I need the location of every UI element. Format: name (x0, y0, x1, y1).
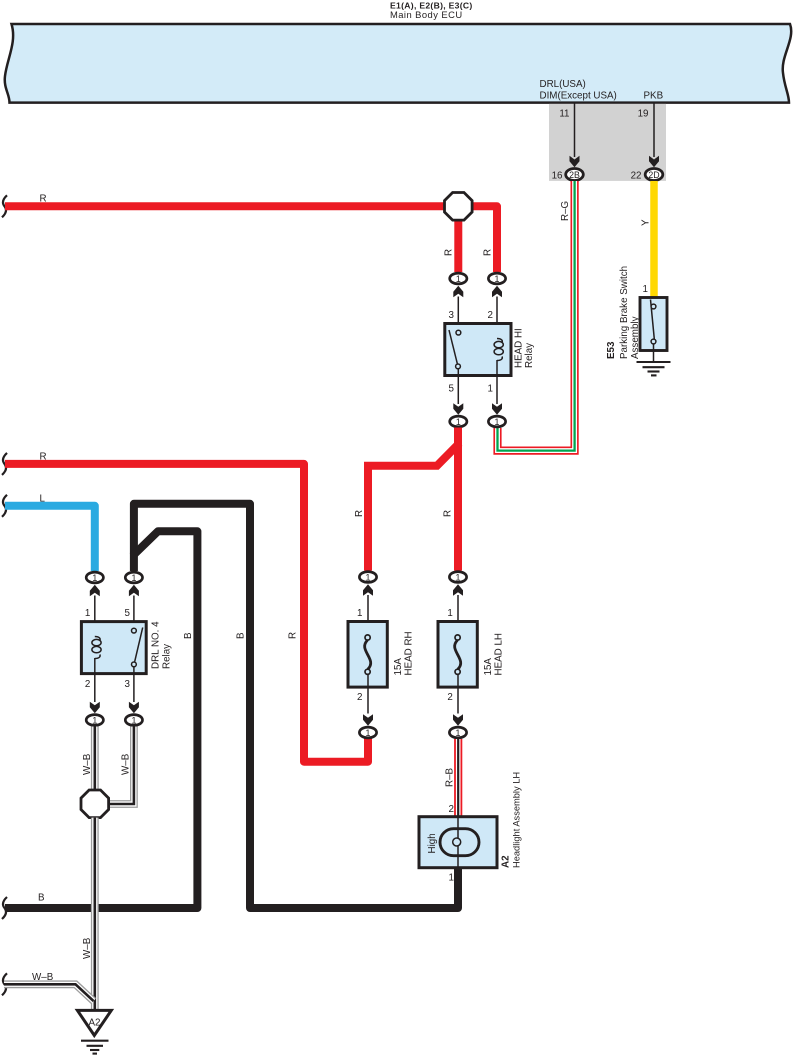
ground lead E53 (653, 344, 655, 362)
pin 1 lead DRL relay (94, 596, 96, 638)
svg-text:B: B (236, 632, 247, 639)
svg-text:DIM(Except USA): DIM(Except USA) (540, 91, 617, 102)
ECU U1 Main Body ECU band (5, 24, 791, 103)
svg-text:R: R (444, 249, 455, 256)
pin 2 lead HEAD HI relay (496, 297, 498, 339)
svg-text:2: 2 (488, 310, 493, 321)
pin 3 lead HEAD HI relay (457, 297, 459, 331)
relay label DRL NO. 4 Relay (151, 621, 173, 669)
relay U3 DRL NO. 4 Relay box (81, 622, 146, 674)
net label DRL(USA) DIM(Except USA) (540, 79, 617, 102)
svg-text:1: 1 (643, 284, 648, 295)
arrow into 2B (570, 156, 580, 168)
label A2 Headlight Assembly LH (501, 772, 522, 868)
headlight pin 2 lead (457, 817, 459, 838)
connector 1 below DRL pin 3 (125, 715, 142, 726)
svg-text:Assembly: Assembly (630, 316, 641, 359)
ground symbol A2 (81, 1041, 109, 1054)
ECU connector block (gray) (549, 104, 666, 181)
wire R-G from 2B to HEAD HI relay pin 1 (498, 181, 575, 451)
junction node (octagon) on W-B wire (81, 790, 109, 818)
connector 1 below relay pin 5 (450, 416, 467, 427)
svg-text:2B: 2B (569, 170, 580, 180)
fuse F2 15A HEAD LH box (438, 622, 477, 688)
header label E1(A), E2(B), E3(C) / Main Body ECU (390, 1, 473, 21)
svg-text:R: R (354, 510, 365, 517)
wire R diagonal branch and feed to fuse HEAD RH (368, 443, 460, 571)
wire R horizontal to HEAD HI relay (5, 206, 497, 272)
svg-text:2D: 2D (648, 170, 659, 180)
wire pin 11 to 2B (574, 103, 576, 157)
svg-text:HEAD HI: HEAD HI (514, 328, 525, 368)
relay coil (pins 2-1) (494, 339, 503, 376)
pin 5 lead HEAD HI relay (457, 369, 459, 404)
svg-text:1: 1 (449, 873, 454, 884)
wire R from fuse HEAD RH output to left edge (5, 464, 368, 762)
wire B ground branch (diagonal to left edge) (5, 531, 197, 908)
connector 1 below fuse LH (449, 727, 466, 738)
svg-text:Relay: Relay (524, 343, 535, 368)
connector 1 above DRL relay pin 5 (125, 572, 142, 583)
svg-text:R: R (40, 451, 47, 462)
pin 2 lead DRL relay (94, 674, 96, 702)
arrow into connector (pin 3) (453, 286, 463, 298)
svg-text:5: 5 (125, 608, 131, 619)
svg-text:5: 5 (449, 384, 455, 395)
wire break at left edge (B) (2, 897, 7, 919)
svg-text:DRL NO. 4: DRL NO. 4 (151, 621, 162, 669)
arrow out of fuse LH (453, 714, 463, 726)
svg-text:19: 19 (638, 109, 649, 120)
wire W-B from DRL pin 2 down (91, 727, 99, 796)
svg-text:Relay: Relay (162, 644, 173, 669)
headlight pin 1 lead (457, 846, 459, 868)
svg-text:3: 3 (125, 679, 131, 690)
label Parking Brake Switch Assembly (619, 266, 641, 359)
svg-text:Main Body ECU: Main Body ECU (390, 9, 463, 20)
pin 3 lead DRL relay (133, 667, 135, 702)
wire break at left edge (R second) (2, 453, 7, 475)
svg-text:2: 2 (449, 804, 454, 815)
svg-text:16: 16 (552, 171, 563, 182)
svg-text:3: 3 (449, 310, 455, 321)
svg-text:15A: 15A (483, 658, 494, 676)
DRL relay coil (pins 1-2) (92, 637, 101, 674)
svg-text:1: 1 (495, 417, 500, 427)
svg-text:Headlight Assembly LH: Headlight Assembly LH (512, 772, 522, 868)
arrow into connector (pin 5 out) (453, 403, 463, 415)
connector 1 above DRL relay pin 1 (86, 572, 103, 583)
svg-text:R: R (40, 194, 47, 205)
svg-text:B: B (38, 893, 45, 904)
svg-text:A2: A2 (89, 1018, 101, 1029)
svg-text:1: 1 (447, 608, 452, 619)
svg-text:HEAD LH: HEAD LH (494, 633, 505, 675)
svg-text:2: 2 (357, 692, 362, 703)
arrow into DRL pin5 connector (129, 585, 139, 597)
arrow into 2D (649, 156, 659, 168)
connector 1 above fuse HEAD RH (359, 572, 376, 583)
arrow out of DRL pin 3 (129, 702, 139, 714)
junction node (octagon) on R wire (445, 193, 473, 221)
DRL relay switch contacts (pins 5-3) (132, 628, 143, 667)
switch contacts E53 (651, 300, 656, 344)
svg-text:1: 1 (456, 417, 461, 427)
svg-text:W–B: W–B (32, 972, 54, 983)
svg-text:HEAD RH: HEAD RH (404, 631, 415, 675)
svg-text:B: B (183, 632, 194, 639)
relay label HEAD HI Relay (514, 328, 536, 368)
arrow into DRL pin1 connector (90, 585, 100, 597)
svg-text:1: 1 (131, 716, 136, 726)
svg-text:R: R (288, 632, 299, 639)
wire L to DRL relay pin 1 (5, 506, 95, 571)
svg-text:Y: Y (641, 219, 652, 226)
wire R-B fuse LH to headlight (454, 739, 462, 817)
svg-text:R: R (443, 510, 454, 517)
svg-text:1: 1 (85, 608, 90, 619)
connector 2B (566, 169, 584, 181)
svg-text:L: L (40, 493, 46, 504)
fuse F2 element (455, 635, 461, 675)
svg-text:W–B: W–B (121, 753, 132, 775)
wire W-B branch from left edge (4, 984, 94, 1001)
svg-text:1: 1 (357, 608, 362, 619)
arrow into fuse LH connector (453, 584, 463, 596)
wire break at left edge (L) (2, 495, 7, 517)
wire Y from 2D to E53 (650, 181, 658, 299)
svg-text:R–B: R–B (445, 767, 456, 787)
wire W-B from junction down to ground A2 (91, 818, 99, 1013)
fuse F1 element (365, 635, 371, 675)
connector 1 above relay pin 3 (450, 273, 467, 284)
connector 1 above relay pin 2 (488, 273, 505, 284)
arrow out of fuse RH (363, 714, 373, 726)
connector 1 below fuse RH (359, 727, 376, 738)
relay U2 HEAD HI Relay box (445, 324, 511, 376)
svg-text:R: R (483, 249, 494, 256)
svg-text:W–B: W–B (82, 937, 93, 959)
svg-text:15A: 15A (393, 658, 404, 676)
svg-text:1: 1 (131, 573, 136, 583)
arrow into fuse RH connector (363, 584, 373, 596)
pin 2 lead fuse LH (457, 674, 459, 714)
svg-text:A2: A2 (501, 855, 512, 868)
svg-text:1: 1 (456, 728, 461, 738)
wire break at left edge (R top) (2, 195, 7, 217)
svg-text:2: 2 (447, 692, 452, 703)
svg-text:1: 1 (495, 274, 500, 284)
connector 1 below DRL pin 2 (86, 715, 103, 726)
svg-text:22: 22 (631, 171, 642, 182)
svg-text:11: 11 (559, 109, 569, 120)
fuse F2 label 15A HEAD LH (483, 633, 505, 675)
pin 5 lead DRL relay (133, 596, 135, 629)
svg-text:R–G: R–G (560, 201, 571, 221)
arrow into connector (pin 2) (492, 286, 502, 298)
connector 1 below relay pin 1 (488, 416, 505, 427)
headlight A2 Headlight Assembly LH box (419, 817, 497, 868)
fuse F1 15A HEAD RH box (348, 622, 387, 688)
svg-text:2: 2 (85, 679, 90, 690)
svg-text:W–B: W–B (82, 753, 93, 775)
svg-text:1: 1 (92, 573, 97, 583)
wire R relay pin5 down to fuse HEAD LH (454, 428, 462, 571)
svg-text:Parking Brake Switch: Parking Brake Switch (619, 266, 630, 359)
fuse F1 label 15A HEAD RH (393, 631, 415, 675)
connector 2D (645, 169, 663, 181)
svg-text:High: High (427, 833, 438, 853)
connector 1 above fuse HEAD LH (449, 572, 466, 583)
wire break at left edge (W-B) (2, 973, 7, 995)
svg-text:DRL(USA): DRL(USA) (540, 79, 586, 90)
svg-text:E53: E53 (606, 341, 617, 359)
svg-text:PKB: PKB (644, 91, 664, 102)
pin 1 lead fuse RH (367, 595, 369, 636)
svg-text:1: 1 (366, 728, 371, 738)
svg-text:1: 1 (488, 384, 493, 395)
wire R from junction down to relay pin 3 (454, 206, 462, 272)
pin 1 lead fuse LH (457, 595, 459, 636)
svg-text:1: 1 (456, 573, 461, 583)
arrow out of DRL pin 2 (90, 702, 100, 714)
pin 2 lead fuse RH (367, 674, 369, 714)
wire B DRL relay pin5 up over and down to headlight (134, 504, 458, 908)
pin 1 lead HEAD HI relay (496, 376, 498, 405)
wire pin 19 to 2D (653, 103, 655, 157)
ground point A2 (triangle) (77, 1010, 111, 1035)
arrow into connector (pin 1 out) (492, 403, 502, 415)
switch E53 parking brake switch box (640, 298, 667, 351)
svg-text:1: 1 (366, 573, 371, 583)
ground symbol E53 (637, 362, 671, 375)
relay switch contacts (pins 3-5) (449, 330, 461, 369)
svg-text:1: 1 (456, 274, 461, 284)
wire W-B from DRL pin 3 to junction (108, 727, 134, 805)
svg-text:1: 1 (92, 716, 97, 726)
headlight bulb (High beam) (440, 829, 479, 856)
